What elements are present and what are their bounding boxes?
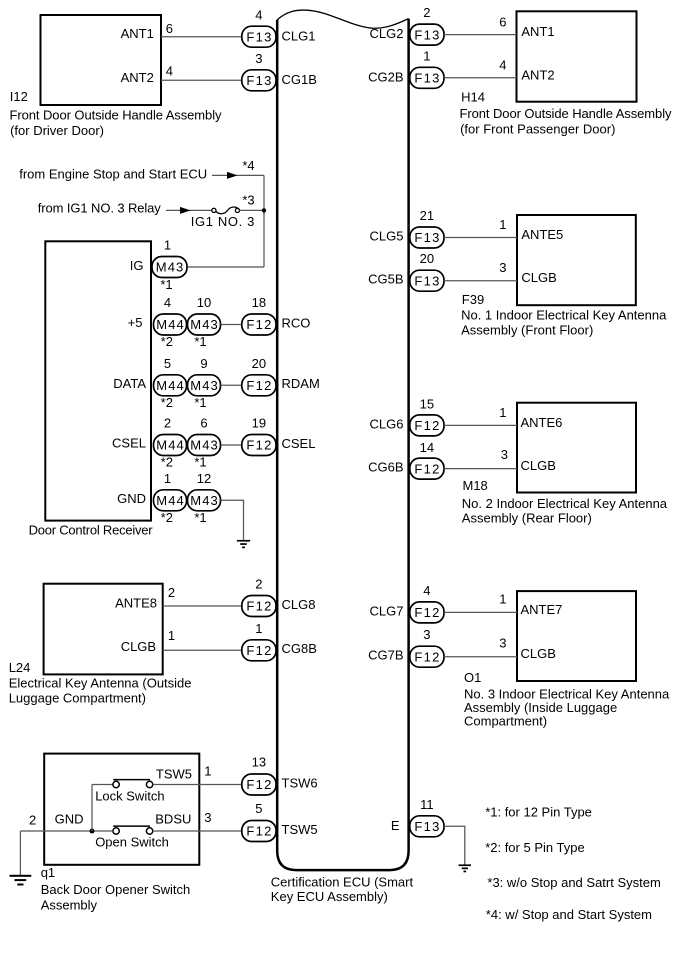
svg-text:20: 20 (252, 356, 266, 371)
wire F13 CLG2 to H14 ANT1 (444, 34, 517, 36)
wire ground to q1 GND junction (20, 830, 92, 832)
svg-text:M43: M43 (156, 260, 184, 275)
svg-text:4: 4 (499, 57, 506, 72)
connector F13 pin E (410, 816, 444, 837)
wire q1 GND junction up to lock switch (91, 785, 93, 832)
svg-text:q1: q1 (41, 865, 55, 880)
wire F13 CG5B to F39 CLGB (444, 280, 517, 282)
wire M43 DATA to F12 RDAM (221, 384, 243, 386)
svg-text:CG8B: CG8B (282, 641, 317, 656)
svg-text:CSEL: CSEL (112, 436, 146, 451)
svg-text:11: 11 (420, 797, 434, 812)
svg-text:1: 1 (499, 405, 506, 420)
wire junction to open switch (95, 830, 113, 832)
svg-text:ANT1: ANT1 (521, 24, 554, 39)
junction node *3/*4 (262, 208, 266, 212)
wire F12 CLG7 to O1 ANTE7 (444, 611, 517, 613)
svg-text:Lock Switch: Lock Switch (95, 789, 164, 804)
connector F12 pin CG7B (410, 646, 444, 667)
wire *4 feed to junction column (212, 174, 264, 176)
svg-text:13: 13 (252, 755, 266, 770)
svg-text:+5: +5 (128, 315, 143, 330)
svg-text:15: 15 (420, 397, 434, 412)
connector F12 pin RCO (242, 314, 276, 335)
svg-text:F12: F12 (246, 643, 271, 658)
svg-text:IG: IG (130, 258, 144, 273)
connector M44 pin GND (154, 490, 187, 511)
svg-text:BDSU: BDSU (155, 812, 191, 827)
svg-text:CSEL: CSEL (282, 436, 316, 451)
box O1 No. 3 Indoor Electrical Key Antenna Assembly (Inside Luggage Compartment) (517, 591, 636, 681)
svg-text:CLGB: CLGB (521, 270, 556, 285)
ground (q1 back door opener switch) (10, 875, 32, 886)
svg-text:DATA: DATA (113, 376, 146, 391)
svg-text:5: 5 (164, 356, 171, 371)
wire relay feed to fuse (166, 209, 212, 211)
connector M44 pin CSEL (154, 435, 187, 456)
svg-text:Electrical Key Antenna (Outsid: Electrical Key Antenna (Outside (9, 676, 192, 691)
svg-text:CLG2: CLG2 (370, 26, 404, 41)
wire L24 CLGB to F12 CG8B (163, 649, 242, 651)
svg-text:IG1 NO. 3: IG1 NO. 3 (191, 214, 255, 229)
wire down to ground (q1) (19, 831, 21, 875)
svg-text:ANTE7: ANTE7 (521, 602, 563, 617)
svg-text:M44: M44 (156, 438, 184, 453)
svg-text:F12: F12 (246, 317, 271, 332)
svg-text:F12: F12 (414, 649, 439, 664)
svg-text:*2: *2 (161, 510, 173, 525)
wire F12 CG6B to M18 CLGB (444, 468, 517, 470)
svg-text:19: 19 (252, 416, 266, 431)
svg-text:3: 3 (204, 810, 211, 825)
svg-text:Assembly (Rear Floor): Assembly (Rear Floor) (462, 510, 592, 525)
svg-text:(for Driver Door): (for Driver Door) (10, 123, 104, 138)
svg-text:TSW5: TSW5 (282, 822, 318, 837)
svg-text:1: 1 (499, 591, 506, 606)
svg-text:*2: *2 (161, 334, 173, 349)
svg-text:*4: *4 (242, 158, 254, 173)
switch SW2 Open Switch (113, 826, 153, 834)
svg-text:4: 4 (423, 583, 430, 598)
svg-text:F13: F13 (414, 230, 439, 245)
svg-text:CLGB: CLGB (121, 639, 156, 654)
connector F12 pin CLG6 (410, 415, 444, 436)
svg-text:M44: M44 (156, 378, 184, 393)
svg-text:Certification ECU (Smart: Certification ECU (Smart (271, 875, 414, 890)
svg-text:ANTE5: ANTE5 (521, 227, 563, 242)
svg-text:1: 1 (255, 621, 262, 636)
svg-text:*1: *1 (194, 510, 206, 525)
svg-text:F13: F13 (414, 27, 439, 42)
svg-text:*4: w/ Stop and Start System: *4: w/ Stop and Start System (486, 907, 652, 922)
svg-text:ANT2: ANT2 (521, 67, 554, 82)
svg-text:M43: M43 (190, 493, 218, 508)
connector M44 pin DATA (154, 375, 187, 396)
wire lock switch to F12 TSW6 (153, 784, 242, 786)
connector M43 pin +5 (188, 314, 221, 335)
svg-text:21: 21 (420, 208, 434, 223)
svg-text:M18: M18 (463, 478, 488, 493)
svg-text:3: 3 (499, 260, 506, 275)
fuse IG1 NO. 3 (212, 207, 240, 214)
svg-text:M44: M44 (156, 493, 184, 508)
wire to lock switch (92, 784, 113, 786)
svg-text:Front Door Outside Handle Asse: Front Door Outside Handle Assembly (10, 108, 223, 123)
svg-text:CG2B: CG2B (368, 69, 403, 84)
svg-text:TSW6: TSW6 (282, 775, 318, 790)
svg-text:Luggage Compartment): Luggage Compartment) (9, 690, 146, 705)
svg-text:6: 6 (200, 416, 207, 431)
svg-text:Compartment): Compartment) (464, 714, 547, 729)
svg-text:CLGB: CLGB (521, 646, 556, 661)
svg-text:20: 20 (420, 251, 434, 266)
connector F12 pin CG6B (410, 458, 444, 479)
wire I12 ANT2 to F13 CG1B (161, 79, 242, 81)
svg-text:F13: F13 (414, 71, 439, 86)
svg-text:CG1B: CG1B (282, 72, 317, 87)
connector M43 pin GND (188, 490, 221, 511)
svg-text:10: 10 (197, 295, 211, 310)
svg-text:CLG7: CLG7 (370, 603, 404, 618)
svg-text:5: 5 (255, 801, 262, 816)
connector F13 pin CG5B (410, 270, 444, 291)
wire F12 CLG6 to M18 ANTE6 (444, 424, 517, 426)
connector F13 pin CLG1 (242, 26, 276, 47)
wire F13 CG2B to H14 ANT2 (444, 77, 517, 79)
wire L24 ANTE8 to F12 CLG8 (163, 605, 242, 607)
svg-text:ANTE8: ANTE8 (115, 596, 157, 611)
connector M43 pin DATA (188, 375, 221, 396)
wire F13 CLG5 to F39 ANTE5 (444, 237, 517, 239)
svg-text:14: 14 (420, 440, 434, 455)
svg-text:*3: w/o Stop and Satrt System: *3: w/o Stop and Satrt System (487, 875, 660, 890)
svg-text:F12: F12 (246, 438, 271, 453)
svg-text:2: 2 (255, 577, 262, 592)
svg-text:3: 3 (501, 447, 508, 462)
svg-text:GND: GND (55, 812, 84, 827)
svg-text:*1: *1 (194, 334, 206, 349)
svg-text:M43: M43 (190, 438, 218, 453)
svg-text:3: 3 (499, 636, 506, 651)
svg-text:Assembly (Front Floor): Assembly (Front Floor) (461, 322, 593, 337)
svg-text:F12: F12 (414, 605, 439, 620)
wire open switch to F12 TSW5 (153, 830, 242, 832)
svg-text:(for Front Passenger Door): (for Front Passenger Door) (460, 122, 615, 137)
svg-text:3: 3 (255, 51, 262, 66)
ground (door control receiver) (237, 540, 250, 548)
connector F13 pin CLG5 (410, 227, 444, 248)
svg-text:F12: F12 (246, 599, 271, 614)
svg-text:ANT1: ANT1 (121, 26, 154, 41)
box Door Control Receiver (45, 241, 151, 520)
svg-text:E: E (391, 818, 400, 833)
connector F12 pin TSW5 (242, 821, 276, 842)
svg-text:CLG6: CLG6 (370, 416, 404, 431)
svg-text:1: 1 (499, 217, 506, 232)
wire M43 GND to ground (221, 500, 244, 540)
svg-text:Back Door Opener Switch: Back Door Opener Switch (41, 882, 191, 897)
box q1 Back Door Opener Switch Assembly (44, 754, 199, 865)
svg-text:*2: *2 (161, 455, 173, 470)
svg-text:M44: M44 (156, 317, 184, 332)
connector F12 pin CG8B (242, 640, 276, 661)
svg-text:3: 3 (423, 627, 430, 642)
svg-text:Front Door Outside Handle Asse: Front Door Outside Handle Assembly (460, 106, 673, 121)
svg-text:from IG1 NO. 3 Relay: from IG1 NO. 3 Relay (38, 200, 162, 215)
svg-text:9: 9 (200, 356, 207, 371)
svg-text:F13: F13 (246, 29, 271, 44)
svg-text:2: 2 (168, 585, 175, 600)
svg-text:CLG5: CLG5 (370, 228, 404, 243)
svg-text:GND: GND (117, 491, 146, 506)
wire M43 CSEL to F12 CSEL (221, 444, 243, 446)
svg-text:Open Switch: Open Switch (95, 835, 169, 850)
svg-text:Key ECU Assembly): Key ECU Assembly) (271, 889, 388, 904)
connector M43 pin CSEL (188, 435, 221, 456)
box L24 Electrical Key Antenna (Outside Luggage Compartment) (44, 584, 163, 675)
svg-text:1: 1 (164, 238, 171, 253)
svg-text:F13: F13 (414, 273, 439, 288)
svg-text:*1: *1 (194, 395, 206, 410)
svg-text:1: 1 (204, 764, 211, 779)
svg-text:Assembly: Assembly (41, 898, 98, 913)
svg-text:4: 4 (164, 295, 171, 310)
wire IG column to M43 IG (187, 266, 265, 268)
svg-text:CG7B: CG7B (368, 648, 403, 663)
connector F12 pin CLG7 (410, 602, 444, 623)
svg-text:1: 1 (423, 48, 430, 63)
svg-text:L24: L24 (9, 660, 31, 675)
box F39 No. 1 Indoor Electrical Key Antenna Assembly (Front Floor) (517, 215, 636, 305)
svg-text:*1: *1 (160, 277, 172, 292)
connector F12 pin CLG8 (242, 596, 276, 617)
svg-text:CLGB: CLGB (521, 458, 556, 473)
svg-text:F12: F12 (246, 378, 271, 393)
ground (ECU E pin) (459, 864, 471, 872)
wire fuse to junction (240, 209, 265, 211)
svg-text:1: 1 (164, 471, 171, 486)
svg-text:F12: F12 (246, 777, 271, 792)
svg-text:M43: M43 (190, 378, 218, 393)
svg-text:No. 2 Indoor Electrical Key An: No. 2 Indoor Electrical Key Antenna (462, 496, 668, 511)
wire F12 CG7B to O1 CLGB (444, 656, 517, 658)
svg-text:ANTE6: ANTE6 (521, 415, 563, 430)
wire F13 E to ground (444, 826, 465, 864)
svg-text:F12: F12 (414, 418, 439, 433)
svg-text:*2: for 5 Pin Type: *2: for 5 Pin Type (485, 840, 585, 855)
svg-text:O1: O1 (464, 670, 481, 685)
svg-text:CLG1: CLG1 (282, 28, 316, 43)
svg-text:4: 4 (255, 7, 262, 22)
svg-text:F13: F13 (246, 73, 271, 88)
svg-text:F39: F39 (462, 292, 484, 307)
ECU U1 Certification ECU (Smart Key ECU Assembly) outline (277, 10, 408, 870)
svg-text:*1: for 12 Pin Type: *1: for 12 Pin Type (485, 805, 592, 820)
svg-text:2: 2 (29, 813, 36, 828)
connector F13 pin CG1B (242, 70, 276, 91)
svg-text:ANT2: ANT2 (121, 70, 154, 85)
arrowhead *3 feed (180, 207, 191, 214)
svg-text:*1: *1 (194, 455, 206, 470)
svg-text:12: 12 (197, 471, 211, 486)
connector F13 pin CG2B (410, 67, 444, 88)
switch SW1 Lock Switch (113, 780, 153, 788)
svg-text:CG6B: CG6B (368, 460, 403, 475)
svg-text:M43: M43 (190, 317, 218, 332)
svg-text:6: 6 (166, 21, 173, 36)
svg-text:F12: F12 (246, 824, 271, 839)
connector M44 pin +5 (154, 314, 187, 335)
svg-text:RDAM: RDAM (282, 376, 320, 391)
svg-text:CLG8: CLG8 (282, 597, 316, 612)
connector M43 pin IG (152, 257, 187, 278)
box H14 Front Door Outside Handle Assembly (for Front Passenger Door) (517, 11, 637, 101)
wire I12 ANT1 to F13 CLG1 (161, 36, 242, 38)
svg-text:from Engine Stop and Start ECU: from Engine Stop and Start ECU (19, 167, 207, 182)
svg-text:*3: *3 (242, 193, 254, 208)
svg-text:18: 18 (252, 295, 266, 310)
connector F13 pin CLG2 (410, 24, 444, 45)
connector F12 pin TSW6 (242, 774, 276, 795)
svg-text:Door Control Receiver: Door Control Receiver (29, 523, 154, 538)
svg-text:F13: F13 (414, 819, 439, 834)
svg-text:No. 1 Indoor Electrical Key An: No. 1 Indoor Electrical Key Antenna (461, 307, 667, 322)
svg-text:RCO: RCO (282, 315, 311, 330)
svg-text:*2: *2 (161, 395, 173, 410)
svg-text:2: 2 (164, 416, 171, 431)
svg-text:I12: I12 (10, 89, 28, 104)
svg-text:6: 6 (499, 14, 506, 29)
wire junction column down to IG row (263, 175, 265, 267)
svg-text:CG5B: CG5B (368, 272, 403, 287)
box I12 Front Door Outside Handle Assembly (for Driver Door) (41, 15, 162, 105)
svg-text:H14: H14 (461, 90, 485, 105)
wire M43 +5 to F12 RCO (221, 324, 243, 326)
svg-text:1: 1 (168, 628, 175, 643)
connector F12 pin CSEL (242, 435, 276, 456)
svg-text:2: 2 (423, 5, 430, 20)
svg-text:TSW5: TSW5 (156, 767, 192, 782)
svg-text:4: 4 (166, 64, 173, 79)
svg-text:F12: F12 (414, 461, 439, 476)
junction node q1 GND (90, 829, 95, 834)
box M18 No. 2 Indoor Electrical Key Antenna Assembly (Rear Floor) (517, 403, 636, 493)
arrowhead *4 feed (227, 172, 238, 179)
connector F12 pin RDAM (242, 375, 276, 396)
